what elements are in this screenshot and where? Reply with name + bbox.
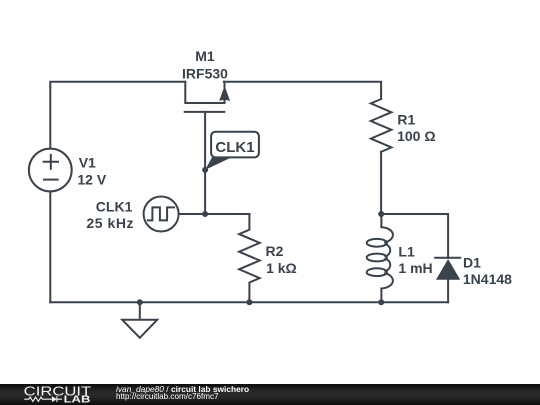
node L1 bottom junction dot: [378, 299, 384, 305]
svg-text:R1: R1: [397, 111, 415, 127]
resistor R2: [239, 214, 260, 302]
svg-text:LAB: LAB: [64, 395, 91, 405]
svg-text:12 V: 12 V: [77, 172, 106, 188]
clock source CLK1: [144, 197, 179, 232]
wire V1 bottom to ground rail: [49, 192, 51, 302]
node gate junction dot: [202, 167, 208, 173]
logo CircuitLab: [0, 384, 110, 405]
wire M1 drain to R1: [224, 82, 381, 99]
diode D1: [435, 258, 460, 280]
ground: [122, 302, 157, 338]
svg-text:25 kHz: 25 kHz: [86, 215, 134, 231]
wire M1 gate to node: [204, 112, 206, 214]
voltage source V1: [29, 149, 72, 192]
resistor R1: [371, 99, 392, 152]
svg-text:1 kΩ: 1 kΩ: [266, 260, 297, 276]
node gate-clock junction dot: [202, 211, 208, 217]
svg-text:V1: V1: [79, 154, 96, 170]
node R2 bottom junction dot: [246, 299, 252, 305]
node ground junction dot: [137, 299, 143, 305]
svg-text:IRF530: IRF530: [182, 65, 228, 81]
inductor L1: [367, 214, 393, 302]
svg-text:D1: D1: [463, 255, 481, 271]
svg-text:1N4148: 1N4148: [463, 271, 512, 287]
wire D1 bottom to rail: [447, 280, 449, 303]
transistor M1: [185, 82, 230, 112]
wire R1 bottom to node: [380, 152, 382, 214]
svg-text:100 Ω: 100 Ω: [397, 128, 435, 144]
svg-text:CLK1: CLK1: [96, 199, 133, 215]
svg-text:CLK1: CLK1: [215, 139, 254, 156]
callout CLK1: [205, 132, 259, 170]
svg-text:R2: R2: [266, 243, 284, 259]
footer text: [116, 386, 249, 400]
node R1-L1-D1 junction dot: [378, 211, 384, 217]
wire V1 top to M1 source: [50, 82, 185, 149]
wire node to D1 top: [381, 214, 448, 258]
bottom rail wire: [50, 301, 448, 303]
svg-text:L1: L1: [398, 244, 415, 260]
wire CLK1 to R2: [179, 213, 250, 215]
svg-text:M1: M1: [195, 48, 215, 64]
svg-text:1 mH: 1 mH: [398, 260, 432, 276]
footer bar: [0, 384, 540, 405]
